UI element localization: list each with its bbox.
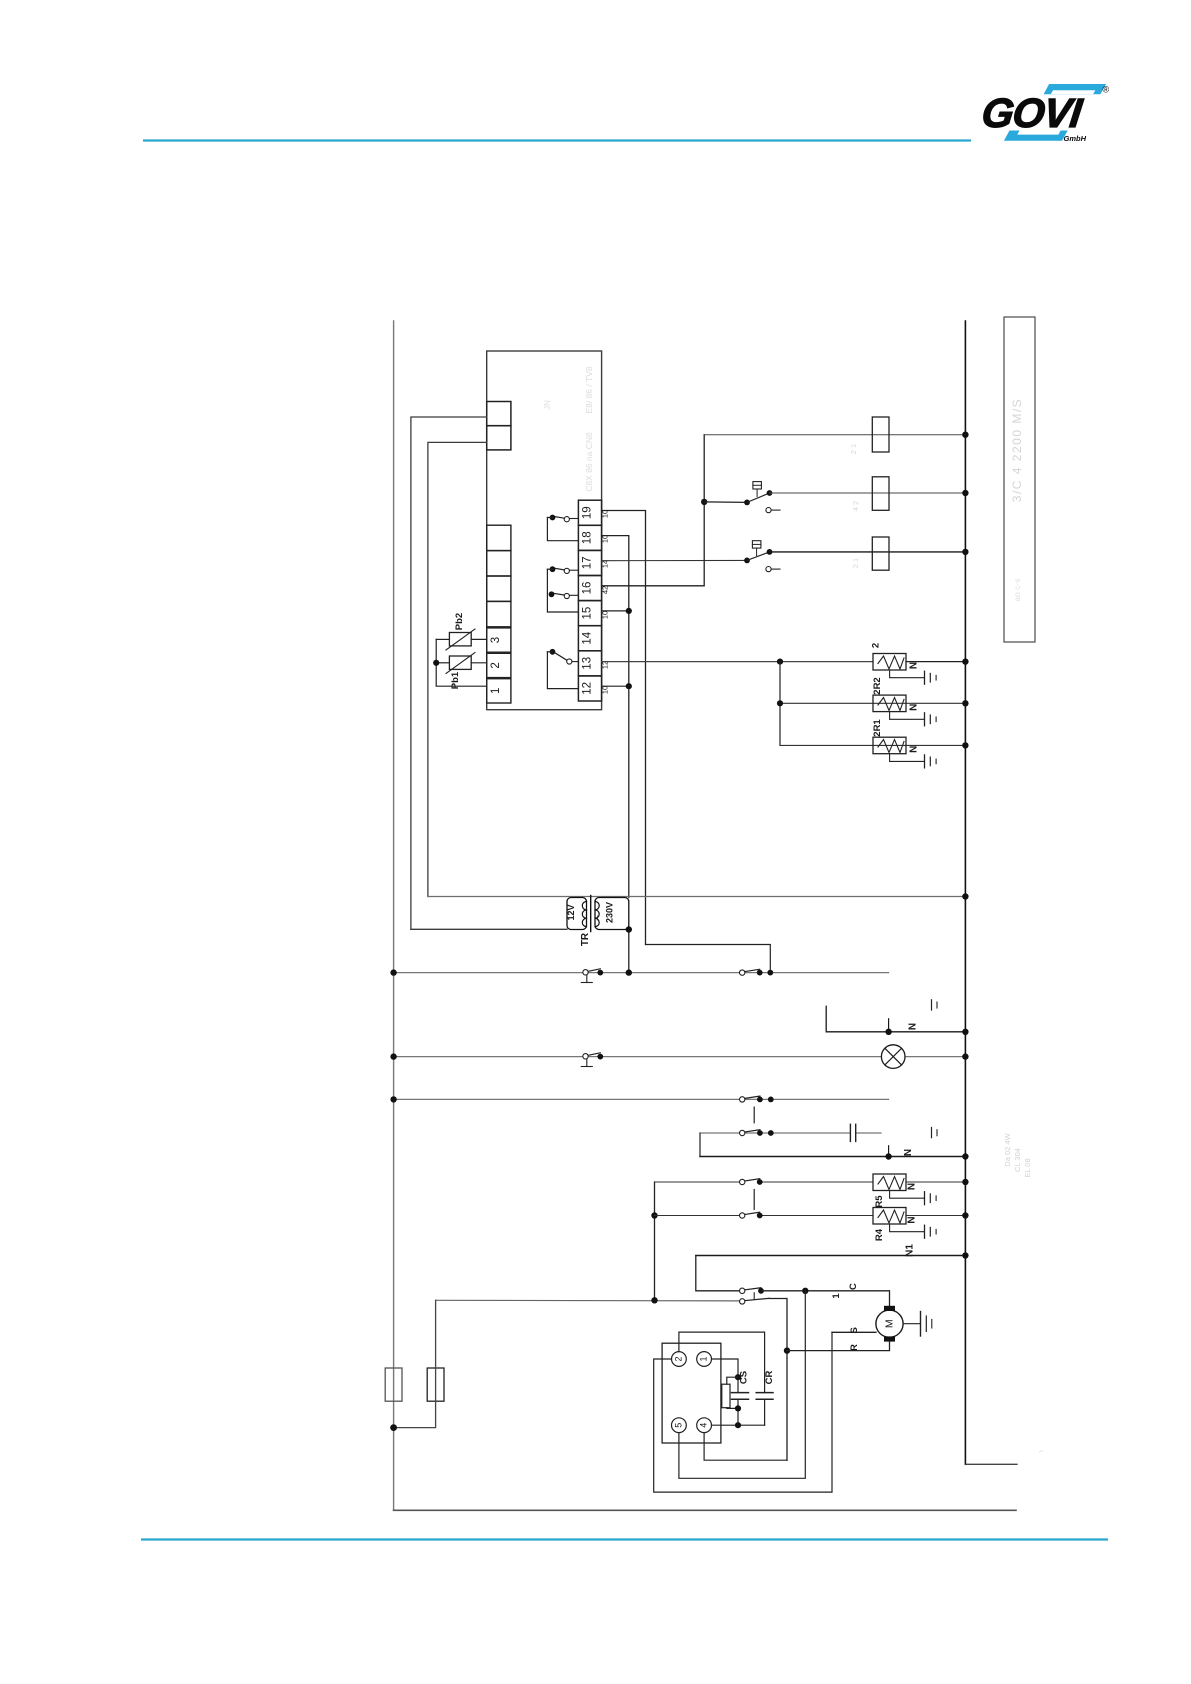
svg-text:2R2: 2R2 [872, 677, 883, 694]
svg-text:R5: R5 [874, 1195, 885, 1208]
junction bus heater B [962, 700, 968, 706]
title block frame [1004, 317, 1035, 642]
svg-text:14: 14 [582, 631, 594, 644]
svg-text:230V: 230V [605, 902, 615, 923]
junction bus heater A [962, 658, 968, 664]
wire: pin16 to load common [602, 435, 705, 586]
switch row 2 wire (lamp) [394, 1056, 882, 1058]
contact M1 [740, 1288, 745, 1293]
svg-text:4: 4 [698, 1423, 708, 1428]
svg-text:2: 2 [871, 643, 882, 648]
svg-text:Pb2: Pb2 [454, 613, 465, 630]
svg-text:N: N [908, 1023, 919, 1030]
junction R wire [784, 1347, 790, 1353]
wire: term5 down loop [679, 1291, 805, 1479]
svg-text:C: C [848, 1283, 859, 1290]
terminal 3 [487, 628, 511, 652]
junction N1 bus [962, 1252, 968, 1258]
junction bus 230V [962, 893, 968, 899]
svg-text:2R1: 2R1 [872, 719, 883, 737]
svg-text:18: 18 [582, 531, 594, 544]
heater R5 [873, 1174, 906, 1191]
start relay box [662, 1343, 721, 1443]
wire: term4 row [712, 1424, 765, 1426]
link R5-R4 [753, 1190, 755, 1210]
wire: bottom main horizontal [394, 1509, 1016, 1511]
relay terminal 5 [672, 1418, 687, 1433]
contact R5 [740, 1179, 745, 1184]
defrost feed vertical [654, 1182, 656, 1300]
junction defrost feed [651, 1297, 657, 1303]
capacitor C2 [849, 1124, 851, 1141]
heater parallel link vertical [779, 662, 781, 746]
relay terminal 4 [697, 1418, 712, 1433]
relay terminal 2 [672, 1352, 687, 1367]
junction bus row1 [962, 432, 968, 438]
wire: pin15 to neutral vertical [602, 610, 629, 612]
link M1-M2 [753, 1293, 755, 1299]
svg-text:S: S [849, 1327, 860, 1333]
junction bus row2 [962, 490, 968, 496]
svg-text:E8/ 86 / TV8: E8/ 86 / TV8 [584, 366, 594, 413]
door switch S4 [583, 970, 588, 975]
earth pilot N [931, 1000, 933, 1010]
junction R4 feed [651, 1212, 657, 1218]
svg-text:1: 1 [831, 1293, 842, 1299]
wire: 230V feed long horizontal [428, 896, 966, 898]
svg-text:N: N [907, 1183, 918, 1190]
load row 1 wire [704, 434, 965, 436]
svg-text:19: 19 [582, 506, 594, 519]
svg-text:M: M [883, 1319, 895, 1328]
svg-text:17: 17 [582, 557, 594, 570]
junction heater B tap [777, 700, 783, 706]
svg-text:2: 2 [490, 662, 502, 668]
junction lamp bus [962, 1053, 968, 1059]
footer rule cyan [141, 1538, 1108, 1540]
earth heater A [890, 670, 924, 678]
wire: J1b to left vertical [428, 442, 487, 896]
junction: probe common [433, 660, 439, 666]
lamp E1 [881, 1045, 905, 1069]
motor M [876, 1310, 903, 1337]
svg-text:N: N [907, 1216, 918, 1223]
contact M2 [740, 1299, 745, 1304]
terminal block 19..12 [578, 500, 601, 525]
wire: left main vertical L1 [393, 321, 395, 1510]
junction fuse branch [390, 1424, 397, 1431]
earth heater C [890, 754, 924, 762]
wire: pin18 down [602, 536, 629, 898]
junction term4 row [735, 1422, 741, 1428]
svg-text:CR: CR [764, 1371, 775, 1385]
svg-text:2: 2 [673, 1356, 683, 1361]
svg-text:an c-s: an c-s [1012, 578, 1022, 601]
svg-text:15: 15 [582, 607, 594, 620]
stub above N junction [888, 1019, 890, 1032]
transformer TR primary box [567, 898, 587, 930]
earth capacitor [931, 1128, 933, 1138]
svg-text:TR: TR [580, 932, 591, 946]
capacitor CR [756, 1392, 773, 1394]
junction CS top [735, 1374, 741, 1380]
switch row 4 wire [700, 1132, 849, 1134]
wire: term4 down loop [704, 1433, 787, 1461]
svg-text:GmbH: GmbH [1064, 134, 1087, 143]
junction bus heater C [962, 742, 968, 748]
junction bus row3 [962, 549, 968, 555]
R4 row wire [655, 1215, 740, 1217]
wire: 12V bottom lead [411, 928, 567, 930]
N1 drop to contact [696, 1256, 740, 1291]
defrost stat TS3 box [752, 541, 761, 548]
wire: motor R lead [787, 1342, 890, 1351]
contact R4 [740, 1213, 745, 1218]
earth R5 [890, 1191, 924, 1199]
svg-text:16: 16 [582, 582, 594, 595]
svg-text:3/C 4 2200 M/S: 3/C 4 2200 M/S [1010, 398, 1024, 502]
junction bus R4 [962, 1212, 968, 1218]
svg-text:13: 13 [582, 657, 594, 670]
R5 row wire [655, 1181, 740, 1183]
switch S2 arm [704, 501, 747, 504]
header rule cyan [143, 139, 971, 141]
N1 row wire [696, 1255, 966, 1257]
svg-text:N: N [909, 662, 920, 669]
motor earth [903, 1323, 919, 1325]
svg-text:JN: JN [543, 400, 552, 410]
wire: motor S lead [832, 1331, 876, 1333]
svg-text:Pb1: Pb1 [450, 671, 461, 689]
connector J1 box b [487, 426, 511, 450]
heater row A wire right [906, 661, 965, 663]
svg-text:12V: 12V [566, 904, 576, 920]
svg-text:®: ® [1103, 85, 1110, 95]
wire: bus bottom corner to right [965, 1463, 1017, 1465]
defrost stat TS2 box [753, 482, 762, 489]
relay contact K2 (17-16-15) [570, 569, 579, 571]
N row wire [700, 1156, 965, 1158]
svg-text:R: R [849, 1344, 860, 1351]
svg-text:N: N [909, 746, 920, 753]
svg-text:CL 304: CL 304 [1013, 1148, 1022, 1172]
wire: pin17 to defrost switch [602, 559, 747, 561]
wire: term2 left loop [654, 1332, 832, 1492]
wire: pin13 to heater row [602, 661, 873, 663]
heater 2R3 [873, 654, 906, 671]
probe Pb1 [449, 656, 471, 669]
junction load common row2 [701, 499, 707, 505]
svg-text:42: 42 [601, 586, 610, 594]
svg-text:N: N [909, 704, 920, 711]
load row 3 wire [770, 551, 966, 553]
fuse F1 [385, 1368, 402, 1401]
svg-text:EL 08: EL 08 [1023, 1158, 1032, 1177]
junction pin12 [626, 683, 632, 689]
terminal strip left cells [487, 525, 511, 550]
junction row1 left [390, 969, 396, 975]
earth R4 [890, 1224, 924, 1232]
GOVI logo [979, 84, 1109, 143]
svg-text:2 1: 2 1 [851, 558, 860, 568]
junction row2 left [390, 1053, 396, 1059]
earth heater B [890, 712, 924, 720]
svg-text:12: 12 [582, 682, 594, 695]
heater 2R2 [873, 695, 906, 712]
wire: 230V bottom lead to switch row [628, 930, 630, 973]
svg-text:2 1: 2 1 [849, 444, 858, 454]
svg-text:10: 10 [601, 611, 610, 619]
junction N row bus [962, 1029, 968, 1035]
switch row 1 wire [394, 972, 889, 974]
terminal 2 [487, 653, 511, 677]
contact row4 [740, 1130, 745, 1135]
relay contact K1 (19-18) [570, 518, 579, 520]
switch S3 arm [744, 558, 750, 564]
junction N2 bus [962, 1153, 968, 1159]
wire: pin12 to neutral vertical [602, 685, 629, 687]
wire: pin19 to down bus A [602, 511, 646, 945]
stub above N2 junction [888, 1146, 890, 1157]
wire: contact M2 down to R line [769, 1299, 787, 1461]
secondary winding arcs [595, 902, 599, 927]
svg-text:GOVI: GOVI [979, 90, 1086, 136]
wire: contact M1 to motor C [761, 1291, 890, 1306]
PTC resistor [727, 1377, 738, 1384]
wire: term1 to CS [712, 1359, 739, 1393]
transformer core [590, 896, 592, 932]
relay contact K3 (14-13-12) [550, 649, 556, 655]
junction 230V bottom [626, 926, 632, 932]
contact row1 [740, 970, 745, 975]
load L3 [872, 537, 889, 570]
junction N row stub [885, 1029, 891, 1035]
wire: pin19 branch corner to row1 switch [646, 945, 771, 973]
junction bus R5 [962, 1179, 968, 1185]
wire: fuse F2 branch [394, 1300, 436, 1427]
connector J1 box a [487, 402, 511, 426]
junction heater A tap [777, 659, 783, 665]
terminal 1 [487, 679, 511, 703]
svg-text:N1: N1 [905, 1244, 916, 1257]
controller U1 outline [487, 351, 602, 710]
svg-text:N: N [903, 1149, 914, 1156]
junction row3 left [390, 1096, 396, 1102]
heater R4 [873, 1208, 906, 1225]
load L1 [872, 417, 889, 452]
wire: right bus vertical N [964, 321, 966, 1464]
probe Pb2 [449, 633, 471, 646]
relay terminal 1 [697, 1352, 712, 1367]
wire: J1a to left vertical [411, 417, 487, 929]
junction CS bottom [735, 1405, 741, 1411]
junction row1 transformer [626, 969, 632, 975]
svg-text:3: 3 [490, 637, 502, 643]
switch row 3 wire [394, 1098, 889, 1100]
fuse F2 [427, 1368, 444, 1401]
svg-text:CS: CS [739, 1371, 750, 1384]
compressor feed long wire [436, 1299, 740, 1302]
load row 2 wire [770, 492, 966, 494]
load L2 [872, 477, 889, 511]
svg-text:5: 5 [673, 1423, 683, 1428]
svg-text:1: 1 [698, 1356, 708, 1361]
primary winding arcs [582, 902, 586, 927]
wire: term2 top rail [679, 1332, 765, 1393]
heater row C wire [780, 744, 965, 746]
door switch S5 [583, 1054, 588, 1059]
junction N2 stub [885, 1153, 891, 1159]
wire: probe common to terminal 1 [436, 639, 487, 686]
capacitor CS [732, 1392, 749, 1394]
contact row3 [740, 1097, 745, 1102]
link row3-row4 [753, 1107, 755, 1123]
svg-text:4 2: 4 2 [851, 501, 860, 511]
junction pin15 [626, 608, 632, 614]
transformer TR secondary box [595, 898, 629, 930]
wire: pilot N drop [826, 1006, 965, 1032]
svg-text:1: 1 [490, 688, 502, 694]
wire: row4 to N row [699, 1133, 701, 1157]
junction start relay tap [802, 1288, 808, 1294]
svg-text:~: ~ [593, 915, 604, 921]
heater row B wire [780, 702, 965, 704]
svg-text:C8X 86 na CN8: C8X 86 na CN8 [584, 432, 594, 492]
svg-text:R4: R4 [874, 1228, 885, 1241]
svg-text:Da 02 4W: Da 02 4W [1003, 1132, 1012, 1166]
heater 2R1 [873, 737, 906, 754]
svg-text:10: 10 [601, 686, 610, 694]
